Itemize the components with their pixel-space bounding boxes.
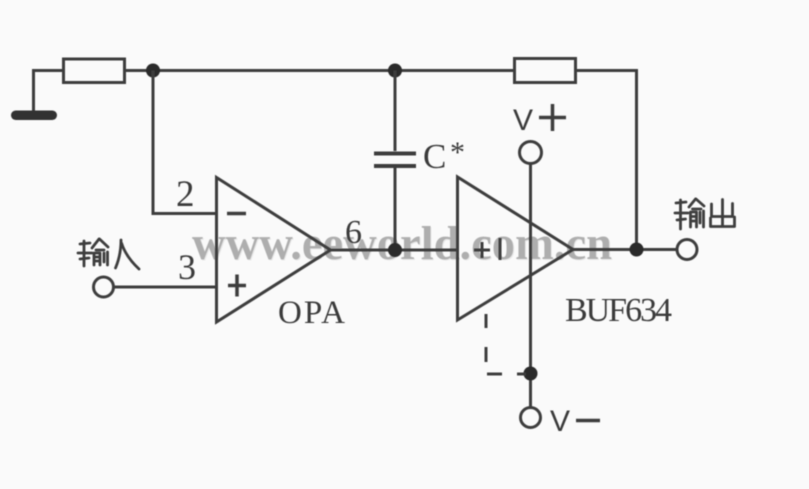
buffer +1 label xyxy=(474,238,500,260)
svg-text:BUF634: BUF634 xyxy=(565,292,672,329)
wire J1 to inverting input xyxy=(153,71,216,214)
op-amp U1 OPA xyxy=(217,178,331,323)
wire op-amp output to buffer xyxy=(330,249,457,252)
node J4 output junction xyxy=(630,243,644,257)
node J2 top junction to C* xyxy=(388,64,402,78)
svg-text:www.eeworld.com.cn: www.eeworld.com.cn xyxy=(192,217,612,270)
ground xyxy=(11,111,57,121)
svg-text:OPA: OPA xyxy=(278,295,345,331)
node J1 feedback junction xyxy=(146,64,160,78)
svg-text:3: 3 xyxy=(178,247,196,287)
svg-text:6: 6 xyxy=(345,214,362,251)
op-amp minus sign xyxy=(227,212,246,216)
svg-text:V: V xyxy=(550,405,570,438)
label V- minus sign xyxy=(576,419,600,423)
wire R2 to right rail down xyxy=(576,71,637,250)
terminal V- circle xyxy=(521,408,541,428)
node J3 capacitor junction on output wire xyxy=(388,243,402,257)
wire V+ rail through buffer xyxy=(529,164,532,408)
resistor R1 xyxy=(64,59,125,83)
label 输出 glyph 出 xyxy=(711,200,735,227)
wire capacitor to output node xyxy=(394,168,397,250)
terminal V+ circle xyxy=(520,142,542,164)
capacitor C* xyxy=(374,154,416,167)
wire R1-left to ground xyxy=(34,71,64,112)
node J5 V- junction xyxy=(524,367,538,381)
wire top rail xyxy=(125,69,515,72)
op-amp plus sign xyxy=(228,275,246,297)
label 输入 glyph 输 xyxy=(78,239,108,266)
wire J2 down to capacitor xyxy=(394,71,397,152)
label V+ plus sign xyxy=(539,104,566,131)
wire buffer output xyxy=(573,248,676,251)
label 输出 glyph 输 xyxy=(675,199,704,229)
svg-text:V: V xyxy=(513,104,533,137)
svg-text:C: C xyxy=(423,137,446,176)
buffer U2 BUF634 xyxy=(458,177,574,320)
terminal output circle xyxy=(677,240,697,260)
resistor R2 xyxy=(515,59,576,83)
label 输入 glyph 入 xyxy=(116,240,140,269)
terminal input circle xyxy=(94,277,114,297)
svg-text:2: 2 xyxy=(176,174,195,215)
svg-text:*: * xyxy=(450,136,465,169)
dashed wire BW pin to V- xyxy=(486,314,526,374)
wire input to non-inverting xyxy=(114,286,216,289)
